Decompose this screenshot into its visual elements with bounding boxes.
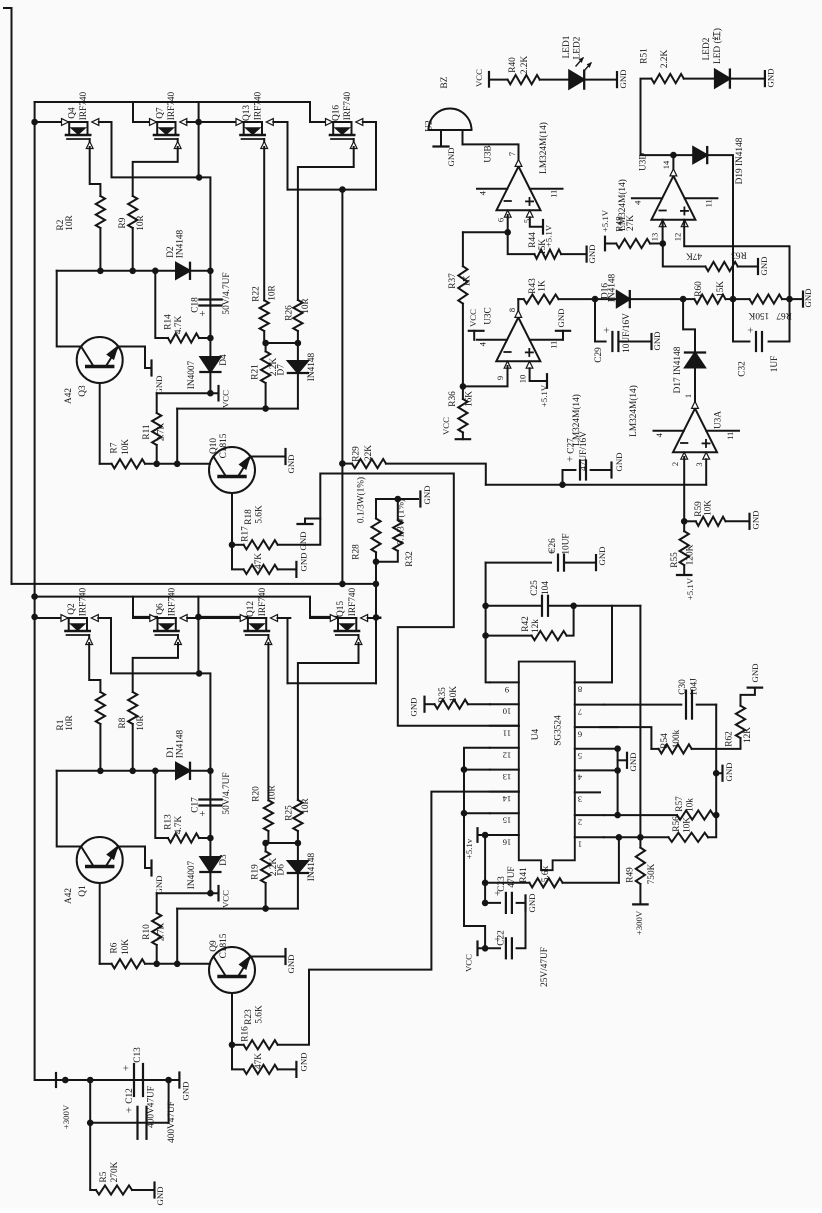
svg-text:VCC: VCC bbox=[221, 890, 231, 908]
node bbox=[62, 1077, 69, 1084]
wire R18 drive to pin11 bbox=[278, 474, 519, 726]
resistor R9 bbox=[128, 196, 137, 228]
svg-text:4.7K: 4.7K bbox=[174, 316, 184, 335]
svg-text:GND: GND bbox=[299, 552, 309, 571]
ground bbox=[748, 686, 762, 688]
transistor Q3 A42 bbox=[77, 337, 123, 383]
resistor R20 bbox=[264, 800, 273, 831]
svg-text:10K: 10K bbox=[449, 686, 459, 702]
resistor R29 22K bbox=[352, 459, 386, 468]
svg-text:IN4007: IN4007 bbox=[187, 860, 197, 889]
svg-text:R21: R21 bbox=[251, 364, 261, 380]
wire pin6 riser bbox=[600, 727, 651, 749]
svg-text:GND: GND bbox=[587, 244, 597, 263]
transistor Q1 A42 bbox=[77, 837, 123, 883]
resistor R42 12k bbox=[486, 635, 532, 637]
svg-text:10K: 10K bbox=[121, 939, 131, 955]
wire bbox=[145, 963, 210, 965]
resistor R8 bbox=[128, 692, 137, 724]
pin 2 stub bbox=[575, 814, 604, 816]
resistor R32 0.1/3W bbox=[397, 499, 399, 520]
svg-text:+: + bbox=[565, 456, 577, 462]
svg-text:10UF: 10UF bbox=[562, 533, 572, 554]
wire base col bbox=[231, 493, 233, 545]
wire VCC row bbox=[157, 892, 219, 894]
node VCC bbox=[207, 890, 214, 897]
power +5.1V bbox=[604, 237, 606, 251]
node Q4 drain bbox=[31, 119, 38, 126]
wire base row bbox=[100, 963, 112, 965]
wire emitter-gnd bbox=[251, 956, 286, 958]
svg-text:GND: GND bbox=[556, 308, 566, 327]
svg-text:R60: R60 bbox=[694, 281, 704, 297]
resistor R28 0.1/3W bbox=[375, 499, 377, 519]
wire Q12 drain feed bbox=[198, 616, 247, 618]
svg-text:C12: C12 bbox=[125, 1088, 135, 1104]
op-amp U3D bbox=[651, 176, 695, 220]
svg-text:10UF/16V: 10UF/16V bbox=[622, 313, 632, 353]
wire R51 riser bbox=[641, 79, 674, 156]
svg-text:2.2K: 2.2K bbox=[660, 50, 670, 69]
svg-text:C25: C25 bbox=[530, 580, 540, 596]
transistor Q13 IRF740 bbox=[199, 121, 244, 123]
svg-text:R20: R20 bbox=[252, 786, 262, 802]
wire QD source bbox=[298, 643, 359, 800]
wire QA source bbox=[89, 643, 100, 692]
svg-text:R32: R32 bbox=[405, 551, 415, 567]
diode D6 bbox=[297, 843, 299, 861]
svg-text:R10: R10 bbox=[142, 924, 152, 940]
svg-text:7: 7 bbox=[577, 707, 582, 717]
resistor R48 27K bbox=[605, 243, 616, 245]
wire emitter-gnd bbox=[118, 347, 151, 369]
wire emitter-gnd bbox=[251, 456, 286, 458]
svg-text:Q2: Q2 bbox=[67, 603, 77, 615]
pin 4 stub bbox=[575, 769, 618, 771]
resistor R11 bbox=[156, 393, 158, 413]
pin 7 stub bbox=[575, 704, 604, 706]
svg-text:D6: D6 bbox=[276, 864, 286, 876]
svg-text:GND: GND bbox=[618, 69, 628, 88]
wire R14 feed bbox=[155, 271, 168, 338]
wire bbox=[99, 724, 101, 771]
capacitor C25 104 bbox=[486, 605, 540, 607]
svg-text:GND: GND bbox=[298, 531, 308, 550]
svg-text:GND: GND bbox=[750, 663, 760, 682]
capacitor C17 bbox=[199, 798, 221, 800]
svg-text:270K: 270K bbox=[110, 1161, 120, 1182]
wire jog bbox=[199, 177, 210, 270]
wire pin12 route bbox=[684, 220, 789, 299]
svg-text:R5: R5 bbox=[99, 1171, 109, 1182]
resistor R16 bbox=[232, 1045, 244, 1070]
svg-text:+: + bbox=[121, 1065, 133, 1071]
svg-text:R7: R7 bbox=[110, 442, 120, 453]
svg-text:GND: GND bbox=[628, 752, 638, 771]
resistor R23 bbox=[232, 1044, 244, 1046]
node bbox=[152, 268, 159, 275]
svg-text:R26: R26 bbox=[285, 305, 295, 321]
power +300V bbox=[633, 903, 647, 905]
wire jog bbox=[199, 673, 210, 770]
diode D19 IN4148 bbox=[673, 154, 693, 156]
svg-text:VCC: VCC bbox=[441, 417, 451, 435]
wire R29 to row bbox=[386, 464, 486, 485]
wire riser bbox=[176, 409, 178, 464]
svg-text:2.7K: 2.7K bbox=[157, 923, 167, 942]
resistor R25 bbox=[293, 800, 302, 831]
svg-text:11: 11 bbox=[725, 432, 735, 440]
transistor Q6 IRF740 bbox=[133, 617, 157, 619]
ground bbox=[748, 514, 750, 529]
led arrows bbox=[576, 58, 583, 66]
svg-text:10R: 10R bbox=[301, 297, 311, 313]
svg-text:Q1: Q1 bbox=[78, 885, 88, 897]
svg-text:D4: D4 bbox=[219, 354, 229, 366]
svg-text:100k: 100k bbox=[672, 729, 682, 748]
wire R14 feed bbox=[155, 771, 168, 838]
svg-text:12k: 12k bbox=[531, 619, 541, 633]
node bbox=[87, 1077, 94, 1084]
wire output rail bbox=[12, 583, 376, 585]
svg-text:A42: A42 bbox=[64, 388, 74, 404]
diode D3 IN4007 bbox=[200, 857, 220, 872]
svg-text:10R: 10R bbox=[268, 284, 278, 300]
svg-text:R49: R49 bbox=[626, 867, 636, 883]
svg-text:C17: C17 bbox=[190, 797, 200, 813]
wire pin7 row C30 bbox=[604, 704, 682, 706]
diode D16 IN4148 bbox=[595, 298, 617, 300]
svg-text:10K: 10K bbox=[683, 817, 693, 833]
svg-text:3: 3 bbox=[578, 795, 582, 805]
svg-text:50V/4.7UF: 50V/4.7UF bbox=[222, 772, 232, 814]
svg-text:4: 4 bbox=[632, 200, 642, 205]
resistor R44 15K bbox=[508, 232, 535, 254]
wire QC source bbox=[263, 147, 265, 300]
wire base bbox=[99, 883, 101, 964]
wire pin8 riser bbox=[611, 606, 613, 683]
wire pin9 col bbox=[486, 563, 490, 683]
wire emitter-gnd bbox=[118, 847, 151, 869]
svg-text:Q13: Q13 bbox=[242, 105, 252, 121]
capacitor C26 10UF bbox=[486, 562, 551, 564]
wire staple bbox=[288, 189, 377, 191]
resistor R21 bbox=[265, 343, 267, 351]
wire bbox=[199, 337, 210, 339]
wire bbox=[199, 837, 210, 839]
node Q12 drain bbox=[195, 614, 202, 621]
svg-text:VCC: VCC bbox=[221, 390, 231, 408]
svg-text:IRF740: IRF740 bbox=[167, 587, 177, 616]
diode LED1 bbox=[569, 71, 584, 89]
resistor R7 bbox=[112, 459, 145, 468]
svg-text:+: + bbox=[601, 327, 613, 333]
svg-text:5.6k: 5.6k bbox=[541, 866, 551, 883]
wire QD source bbox=[298, 147, 354, 300]
pin 14 stub bbox=[490, 791, 519, 793]
node bbox=[152, 768, 159, 775]
svg-text:2: 2 bbox=[670, 462, 680, 466]
resistor R43 1K bbox=[518, 298, 523, 300]
node bbox=[680, 296, 687, 303]
wire buzzer to pin7 bbox=[463, 144, 519, 159]
svg-text:LED1: LED1 bbox=[562, 35, 572, 58]
svg-text:R44: R44 bbox=[528, 232, 538, 248]
node bbox=[229, 1042, 236, 1049]
wire pin5 +5.1V bbox=[530, 217, 543, 227]
node bbox=[713, 812, 720, 819]
svg-text:GND: GND bbox=[422, 485, 432, 504]
svg-text:+5.1V: +5.1V bbox=[600, 209, 610, 232]
svg-text:GND: GND bbox=[286, 954, 296, 973]
node R29 tap bbox=[339, 460, 346, 467]
svg-text:Q6: Q6 bbox=[156, 603, 166, 615]
wire pin10 R35 bbox=[468, 703, 490, 705]
capacitor C13 400V47UF bbox=[133, 1064, 135, 1096]
svg-text:LED (红): LED (红) bbox=[711, 28, 723, 64]
svg-text:10R: 10R bbox=[65, 714, 75, 730]
node rail-R29 bbox=[339, 581, 346, 588]
svg-text:2.2K: 2.2K bbox=[520, 56, 530, 75]
ground bbox=[284, 449, 286, 464]
node bbox=[730, 296, 737, 303]
svg-text:GND: GND bbox=[614, 452, 624, 471]
wire U3D out bbox=[672, 155, 674, 169]
wire QB source bbox=[133, 643, 178, 692]
pin 8 stub bbox=[575, 681, 612, 683]
svg-text:+300V: +300V bbox=[634, 910, 644, 935]
node bbox=[207, 335, 214, 342]
svg-text:120K: 120K bbox=[685, 544, 695, 565]
resistor R40 2.2K bbox=[489, 79, 508, 81]
wire C-col bbox=[209, 271, 211, 393]
wire bbox=[132, 724, 134, 771]
node bbox=[461, 810, 468, 817]
svg-text:R51: R51 bbox=[640, 48, 650, 64]
node bbox=[614, 812, 621, 819]
wire pin8 out bbox=[517, 299, 519, 310]
wire bbox=[169, 1079, 180, 1081]
resistor R63 47K bbox=[663, 244, 706, 267]
ground bbox=[295, 1062, 297, 1077]
svg-text:C26: C26 bbox=[548, 538, 558, 554]
wire R41 riser bbox=[618, 837, 620, 883]
svg-text:8: 8 bbox=[507, 308, 517, 312]
svg-text:11: 11 bbox=[548, 341, 558, 349]
svg-text:R23: R23 bbox=[244, 1009, 254, 1025]
svg-text:Q16: Q16 bbox=[331, 105, 341, 121]
diode D17 IN4148 bbox=[683, 299, 695, 352]
resistor R51 2.2K bbox=[651, 74, 683, 83]
resistor R26 bbox=[293, 300, 302, 331]
node bbox=[153, 961, 160, 968]
wire collector bbox=[57, 771, 81, 847]
svg-text:10R: 10R bbox=[268, 784, 278, 800]
pin 6 stub bbox=[575, 726, 618, 728]
svg-text:6: 6 bbox=[495, 218, 505, 222]
svg-text:15: 15 bbox=[503, 816, 512, 826]
svg-text:D17 IN4148: D17 IN4148 bbox=[673, 346, 683, 393]
svg-text:U3B: U3B bbox=[483, 145, 493, 163]
transistor Q4 IRF740 bbox=[35, 121, 69, 123]
node bbox=[129, 268, 136, 275]
ground bbox=[524, 895, 526, 910]
svg-text:GND: GND bbox=[299, 1052, 309, 1071]
ground bbox=[757, 259, 759, 274]
svg-text:+: + bbox=[745, 327, 757, 333]
wire collector bbox=[57, 271, 81, 347]
svg-text:16: 16 bbox=[502, 838, 511, 848]
wire +300V bus bbox=[35, 102, 66, 1080]
svg-text:GND: GND bbox=[154, 375, 164, 394]
wire col to C22 bbox=[464, 813, 485, 948]
transistor Q16 IRF740 bbox=[310, 121, 333, 123]
svg-text:R63: R63 bbox=[731, 249, 747, 259]
svg-text:D2: D2 bbox=[166, 246, 176, 258]
wire bbox=[790, 298, 804, 300]
wire bbox=[267, 831, 269, 843]
svg-text:R17: R17 bbox=[241, 526, 251, 542]
ground bbox=[585, 247, 587, 262]
svg-text:14: 14 bbox=[502, 794, 511, 804]
node bbox=[637, 834, 644, 841]
svg-text:47UF/16V: 47UF/16V bbox=[579, 431, 589, 471]
svg-text:R13: R13 bbox=[164, 814, 174, 830]
wire Q13 drain feed bbox=[199, 121, 244, 123]
svg-text:14: 14 bbox=[661, 160, 671, 169]
resistor R54 100k bbox=[651, 748, 658, 750]
capacitor C22 bbox=[469, 947, 483, 949]
svg-text:Q15: Q15 bbox=[336, 601, 346, 617]
wire C25-R54 col bbox=[639, 606, 641, 838]
node bbox=[165, 1077, 172, 1084]
wire sub row bbox=[177, 908, 298, 910]
svg-text:GND: GND bbox=[409, 697, 419, 716]
ground bbox=[150, 361, 152, 376]
svg-text:6: 6 bbox=[577, 729, 582, 739]
svg-text:15K: 15K bbox=[538, 239, 548, 255]
pin 11 stub bbox=[490, 725, 519, 727]
svg-text:IRF740: IRF740 bbox=[254, 91, 264, 120]
svg-text:10R: 10R bbox=[136, 214, 146, 230]
capacitor C27 47UF/16V bbox=[563, 469, 576, 471]
svg-text:IN4148: IN4148 bbox=[176, 729, 186, 758]
svg-text:R40: R40 bbox=[508, 57, 518, 73]
svg-text:U3C: U3C bbox=[483, 307, 493, 325]
svg-text:IN4148: IN4148 bbox=[307, 352, 317, 381]
svg-text:13: 13 bbox=[649, 233, 659, 242]
svg-text:R59: R59 bbox=[694, 501, 704, 517]
resistor R56 10K bbox=[604, 836, 669, 838]
resistor R62 12K bbox=[716, 738, 740, 749]
svg-text:GND: GND bbox=[181, 1081, 191, 1100]
wire shunt top rail bbox=[376, 498, 418, 500]
svg-text:R41: R41 bbox=[519, 867, 529, 883]
resistor R60 15K bbox=[683, 298, 694, 300]
wire QB gate bbox=[198, 617, 199, 619]
node bbox=[482, 832, 489, 839]
node bbox=[461, 766, 468, 773]
op-amp U3A bbox=[673, 408, 717, 452]
svg-text:IRF740: IRF740 bbox=[258, 587, 268, 616]
wire pin13 bbox=[662, 220, 664, 244]
svg-text:15K: 15K bbox=[716, 281, 726, 297]
svg-text:12: 12 bbox=[672, 233, 682, 242]
wire pin2 bbox=[683, 459, 685, 521]
node bbox=[295, 840, 302, 847]
wire top rail bbox=[35, 102, 333, 122]
wire R29 column bbox=[341, 190, 343, 584]
svg-text:R16: R16 bbox=[241, 1026, 251, 1042]
svg-text:12K: 12K bbox=[743, 727, 753, 743]
svg-text:10R: 10R bbox=[136, 714, 146, 730]
svg-text:U3A: U3A bbox=[714, 411, 724, 429]
node bbox=[295, 340, 302, 347]
node bbox=[373, 558, 380, 565]
wire pin13 ext bbox=[464, 769, 490, 771]
node bbox=[504, 229, 511, 236]
svg-text:R62: R62 bbox=[725, 731, 735, 747]
pin 12 stub bbox=[490, 747, 519, 749]
svg-text:D1: D1 bbox=[166, 746, 176, 758]
wire pin6 row bbox=[463, 231, 508, 233]
svg-text:+5.1v: +5.1v bbox=[464, 838, 474, 859]
ground bbox=[764, 71, 766, 86]
resistor R19 bbox=[265, 843, 267, 851]
power VCC bbox=[476, 942, 478, 956]
wire bbox=[168, 1080, 170, 1123]
svg-text:25V/47UF: 25V/47UF bbox=[540, 947, 550, 987]
svg-text:11: 11 bbox=[503, 728, 511, 738]
ground bbox=[626, 753, 628, 768]
pin 16 stub bbox=[490, 834, 519, 836]
wire C32 left col bbox=[733, 299, 749, 341]
svg-text:+300V: +300V bbox=[61, 1104, 71, 1129]
node gate join bbox=[196, 670, 203, 677]
transistor Q7 IRF740 bbox=[133, 121, 157, 123]
power +5.1v bbox=[476, 828, 478, 842]
svg-text:R55: R55 bbox=[670, 552, 680, 568]
svg-text:GND: GND bbox=[527, 893, 537, 912]
resistor R6 bbox=[112, 959, 145, 968]
ground U3C bbox=[556, 330, 570, 332]
svg-text:R36: R36 bbox=[448, 391, 458, 407]
ground bbox=[284, 949, 286, 964]
wire rail2 bbox=[35, 597, 338, 617]
svg-text:R22: R22 bbox=[252, 286, 262, 302]
resistor R13 bbox=[168, 833, 199, 842]
wire R23 drive to pin14 bbox=[278, 792, 519, 1045]
power VCC bbox=[488, 72, 490, 87]
svg-text:GND: GND bbox=[803, 288, 813, 307]
svg-text:IN4148: IN4148 bbox=[176, 229, 186, 258]
ground bbox=[610, 463, 612, 478]
diode D2 bbox=[176, 263, 190, 279]
node bbox=[97, 768, 104, 775]
svg-text:12: 12 bbox=[503, 750, 512, 760]
wire staple riser bbox=[375, 617, 377, 683]
wire C29 riser bbox=[595, 299, 606, 341]
ground bbox=[721, 766, 723, 781]
wire gnd stub bbox=[716, 772, 722, 774]
wire gnd stub bbox=[618, 759, 627, 761]
wire sense row bbox=[486, 484, 706, 486]
svg-text:R35: R35 bbox=[438, 687, 448, 703]
svg-text:IRF740: IRF740 bbox=[343, 91, 353, 120]
node bbox=[482, 632, 489, 639]
node staple tap bbox=[339, 186, 346, 193]
ground bbox=[616, 72, 618, 87]
